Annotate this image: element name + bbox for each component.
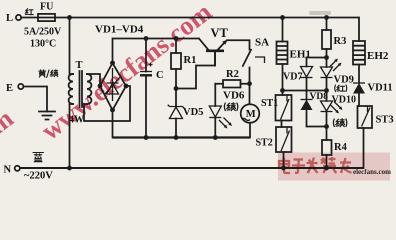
svg-text:L: L bbox=[6, 13, 13, 24]
resistor R2 bbox=[223, 80, 241, 88]
svg-text:E: E bbox=[6, 83, 13, 94]
node C top bbox=[144, 36, 149, 41]
svg-text:4W: 4W bbox=[69, 115, 84, 126]
子 bbox=[292, 160, 305, 173]
label (绿) bbox=[224, 103, 237, 111]
svg-text:EH1: EH1 bbox=[290, 49, 311, 61]
label 黄/绿 bbox=[39, 70, 58, 78]
node C bottom bbox=[144, 135, 149, 140]
node bridge bottom vertex bbox=[110, 108, 115, 113]
watermark www.elecfans.com diagonal bbox=[35, 0, 217, 146]
wire top rail from L to top-right corner bbox=[21, 17, 359, 19]
node R2/SA junction bbox=[247, 81, 252, 86]
wire secondary top to bridge left vertex bbox=[87, 74, 100, 86]
svg-text:ST1: ST1 bbox=[261, 98, 278, 109]
diode VD8 bbox=[306, 91, 308, 100]
发 bbox=[307, 158, 318, 174]
heater EH2 bbox=[358, 18, 360, 42]
heater EH1 bbox=[282, 18, 284, 42]
CIRCUIT LAYER bbox=[309, 11, 331, 15]
node EH1/ST1/VD7 junction bbox=[280, 88, 285, 93]
wire bridge top to DC+ rail bbox=[112, 39, 114, 64]
svg-text:~220V: ~220V bbox=[24, 171, 53, 182]
wire ST3 to N rail bbox=[363, 128, 365, 168]
node A under R3 bbox=[324, 55, 329, 60]
watermark pink band bottom right bbox=[278, 153, 390, 181]
svg-text:VD5: VD5 bbox=[183, 107, 203, 118]
wire N rail bbox=[20, 167, 364, 169]
wire VT emitter to SA bbox=[227, 40, 250, 49]
thermostat ST1 bbox=[276, 95, 292, 121]
svg-text:N: N bbox=[4, 165, 12, 176]
bridge rectifier VD1-VD4 diamond bbox=[100, 63, 126, 110]
svg-text:T: T bbox=[76, 60, 83, 71]
wire base staircase to VT bbox=[176, 52, 215, 89]
node C dot above R4 bbox=[324, 124, 329, 129]
node primary bottom on N rail bbox=[67, 166, 72, 171]
wire SA to motor bbox=[249, 68, 251, 105]
thermostat ST2 bbox=[276, 127, 292, 152]
svg-text:R4: R4 bbox=[334, 142, 348, 153]
svg-text:VD6: VD6 bbox=[223, 90, 245, 102]
svg-text:FU: FU bbox=[40, 2, 53, 13]
wire DC- rail bbox=[113, 136, 251, 138]
led VD6 bbox=[214, 84, 216, 106]
svg-text:SA: SA bbox=[255, 37, 269, 49]
wire node B horizontal bbox=[283, 90, 327, 92]
svg-text:VD7: VD7 bbox=[283, 72, 302, 83]
wire bridge bottom to DC- rail bbox=[112, 110, 114, 138]
node bridge right vertex bbox=[124, 84, 129, 89]
led VD9 red bbox=[326, 58, 328, 68]
capacitor C bbox=[145, 39, 147, 72]
svg-text:VD10: VD10 bbox=[332, 95, 356, 106]
svg-text:R2: R2 bbox=[226, 69, 239, 80]
wire EH1 to ST1 bbox=[282, 64, 284, 95]
烧 bbox=[321, 157, 337, 173]
svg-text:VD9: VD9 bbox=[334, 75, 354, 86]
wire down to transformer primary bbox=[70, 18, 74, 75]
led VD10 green bbox=[326, 91, 328, 102]
node bridge left vertex bbox=[98, 84, 103, 89]
bridge inner diode bbox=[104, 68, 121, 101]
wire E to ground bbox=[23, 87, 47, 112]
resistor R3 bbox=[324, 15, 329, 20]
svg-text:VT: VT bbox=[211, 26, 229, 40]
node R4 bottom bbox=[324, 166, 329, 171]
motor M bbox=[241, 104, 260, 123]
paper background bbox=[0, 0, 396, 186]
svg-text:VD1–VD4: VD1–VD4 bbox=[95, 24, 144, 36]
diode VD7 bbox=[306, 58, 308, 67]
node: junction L/primary bbox=[67, 15, 72, 20]
svg-text:ST2: ST2 bbox=[256, 138, 273, 149]
label (红) bbox=[335, 85, 347, 92]
svg-text:VD11: VD11 bbox=[368, 83, 393, 94]
fuse FU bbox=[38, 14, 55, 21]
transformer T core bbox=[80, 71, 83, 107]
svg-text:C: C bbox=[156, 70, 164, 81]
watermark 电子发烧友 red characters bbox=[279, 157, 352, 173]
transformer T primary winding bbox=[69, 74, 73, 104]
transformer T secondary winding bbox=[87, 74, 91, 104]
label 红 (red wire) bbox=[26, 9, 34, 15]
resistor R1 bbox=[175, 39, 177, 54]
wire ST1 to ST2 bbox=[281, 121, 283, 128]
svg-text:130°C: 130°C bbox=[30, 39, 56, 50]
wire primary bottom to N rail bbox=[70, 104, 74, 168]
友 bbox=[340, 158, 352, 173]
svg-text:5A/250V: 5A/250V bbox=[24, 27, 62, 38]
node R1 bottom / VD5 bbox=[174, 86, 179, 91]
电 bbox=[279, 158, 290, 174]
svg-text:R1: R1 bbox=[184, 55, 197, 66]
label + of capacitor bbox=[149, 63, 153, 67]
node VD6 bottom bbox=[213, 135, 218, 140]
watermark fragment lower-left bbox=[0, 103, 19, 183]
node R1 top bbox=[174, 36, 179, 41]
zener diode VD5 bbox=[175, 89, 177, 107]
node bridge top vertex bbox=[110, 61, 115, 66]
label (绿) right bbox=[333, 119, 346, 127]
wire DC+ rail bbox=[113, 38, 200, 40]
label 蓝 (blue wire) with overline bbox=[33, 153, 44, 162]
node B dot under VD9 bbox=[324, 88, 329, 93]
svg-text:R3: R3 bbox=[334, 36, 347, 47]
ground bbox=[39, 112, 55, 120]
wire EH2 to VD11 bbox=[358, 65, 360, 84]
svg-text:ST3: ST3 bbox=[376, 115, 394, 126]
node VD5 bottom bbox=[174, 135, 179, 140]
transistor VT bbox=[206, 49, 224, 52]
wire ST2 to N rail bbox=[283, 152, 285, 168]
node ST2 on N rail bbox=[281, 166, 286, 171]
thermostat ST3 bbox=[358, 106, 373, 128]
svg-text:elecfans.com: elecfans.com bbox=[353, 168, 391, 176]
wire secondary bottom to bridge right vertex bbox=[84, 86, 130, 121]
resistor R4 bbox=[326, 127, 328, 141]
wire node A horizontal bbox=[307, 57, 327, 59]
diode VD11 bbox=[353, 82, 365, 84]
switch SA bbox=[243, 50, 251, 66]
svg-text:EH2: EH2 bbox=[367, 50, 389, 62]
svg-text:M: M bbox=[246, 109, 256, 120]
